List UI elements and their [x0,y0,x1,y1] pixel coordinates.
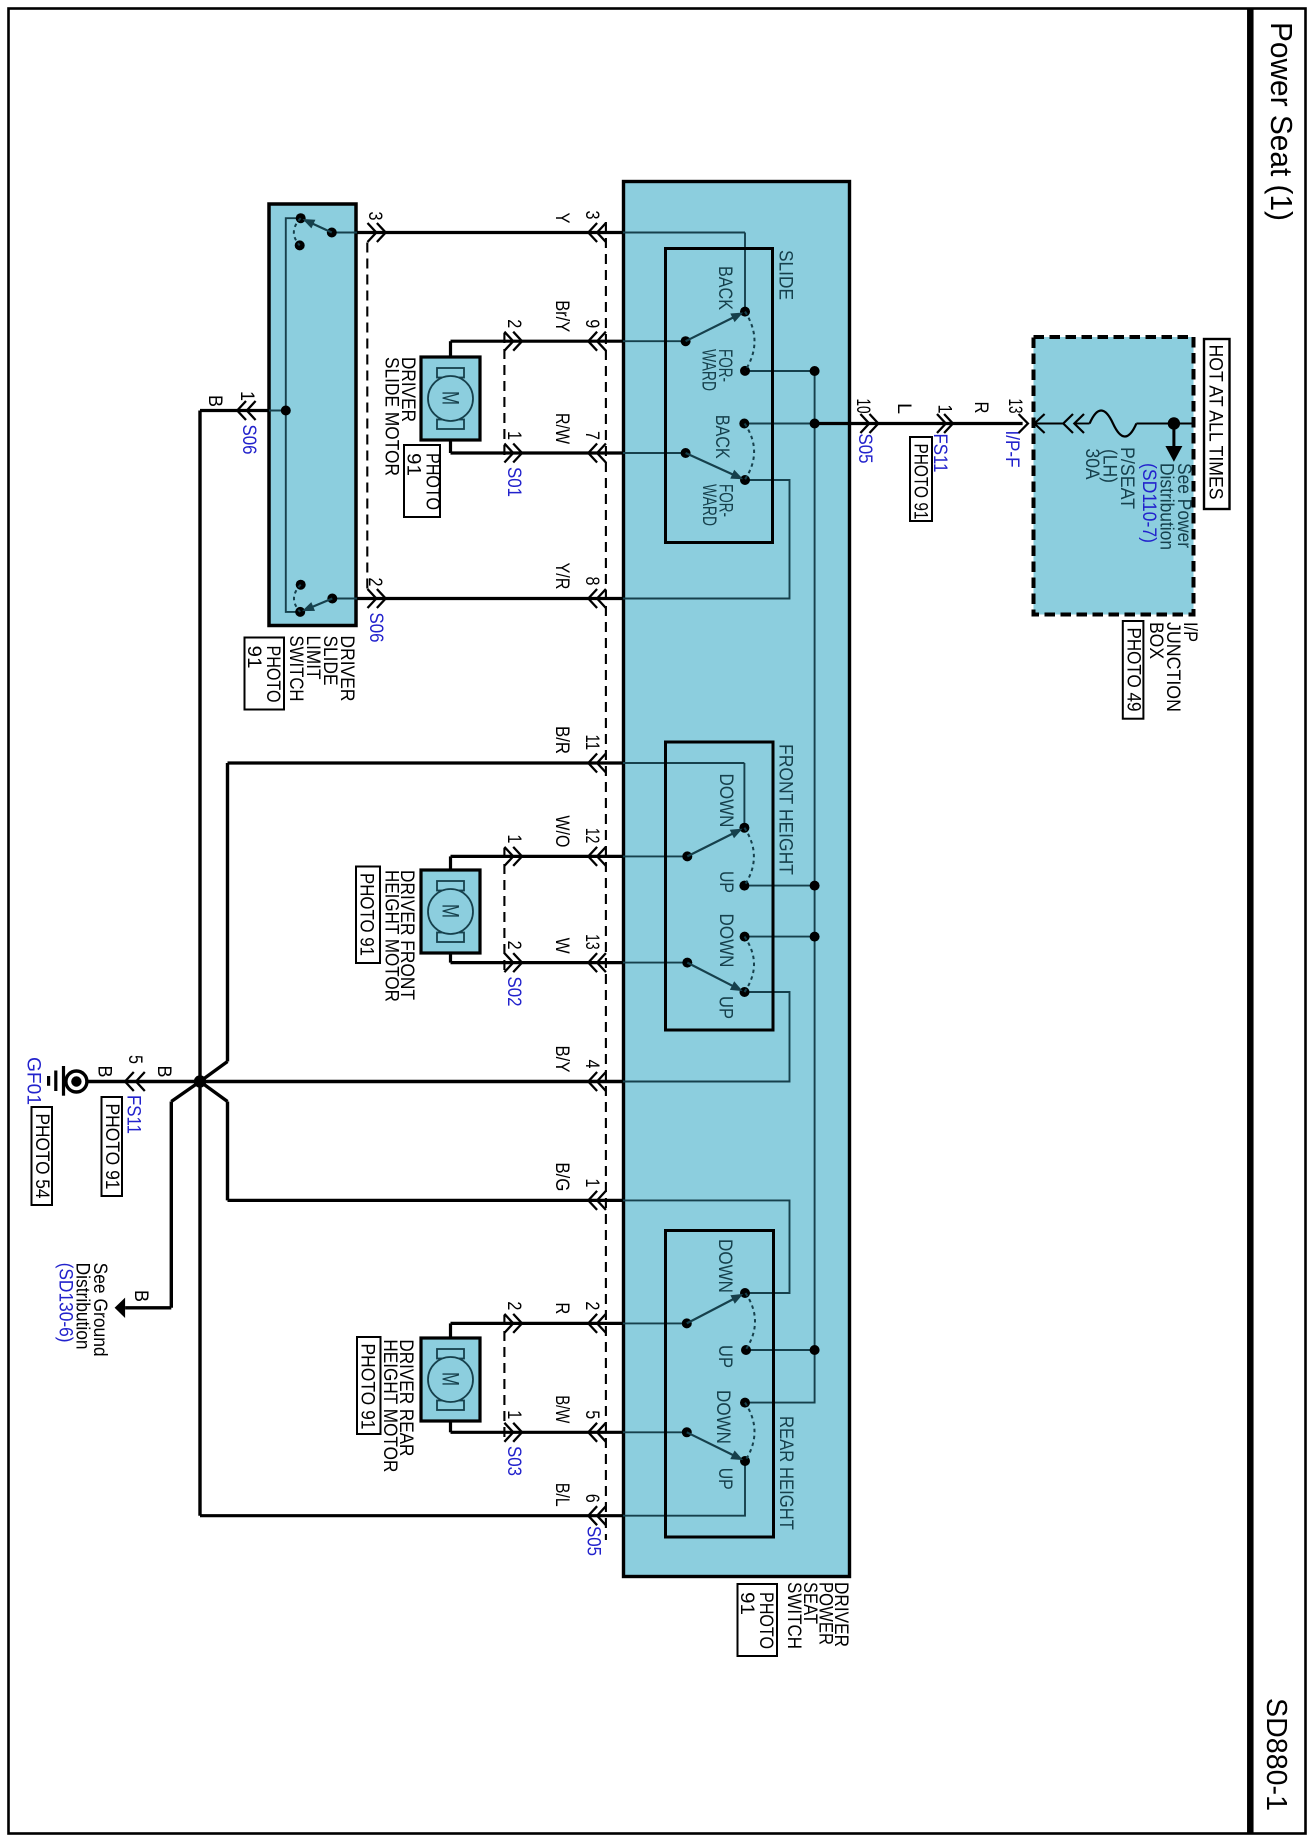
svg-text:1: 1 [934,405,955,414]
svg-text:91: 91 [243,646,264,669]
svg-text:2: 2 [364,578,385,587]
svg-text:2: 2 [503,319,524,328]
svg-text:2: 2 [503,1301,524,1310]
svg-text:S05: S05 [854,434,875,464]
svg-text:BACK: BACK [714,266,735,310]
svg-text:11: 11 [581,735,602,751]
svg-text:HEIGHT MOTOR: HEIGHT MOTOR [379,1339,400,1472]
svg-text:UP: UP [714,1468,735,1490]
svg-text:1: 1 [581,1178,602,1187]
svg-text:R: R [551,1302,572,1314]
svg-text:W: W [551,938,572,954]
svg-text:S03: S03 [503,1446,524,1476]
svg-text:13: 13 [1004,399,1025,414]
svg-text:UP: UP [714,1345,735,1368]
svg-text:S06: S06 [365,613,386,643]
svg-text:91: 91 [736,1592,757,1615]
svg-text:6: 6 [581,1494,602,1503]
svg-text:5: 5 [124,1055,145,1064]
svg-text:L: L [893,403,914,414]
svg-text:PHOTO: PHOTO [422,453,443,510]
svg-text:12: 12 [581,828,602,844]
svg-text:PHOTO: PHOTO [755,1592,776,1649]
svg-text:10: 10 [852,399,873,414]
svg-text:4: 4 [581,1060,602,1069]
svg-text:S02: S02 [503,977,524,1007]
svg-text:Br/Y: Br/Y [551,300,572,332]
svg-text:PHOTO 91: PHOTO 91 [910,444,931,520]
svg-text:Y: Y [551,213,572,224]
svg-text:1: 1 [503,1410,524,1419]
svg-text:WARD: WARD [698,484,719,526]
svg-text:PHOTO: PHOTO [262,646,283,703]
svg-text:SWITCH: SWITCH [783,1582,804,1649]
svg-text:FS11: FS11 [123,1095,144,1134]
svg-text:(SD110-7): (SD110-7) [1138,463,1159,543]
svg-text:B: B [204,395,225,407]
svg-text:B/L: B/L [551,1483,572,1507]
svg-text:B/R: B/R [551,726,572,754]
svg-text:3: 3 [364,212,385,221]
svg-text:91: 91 [403,453,424,476]
svg-text:S01: S01 [503,467,524,497]
svg-text:R/W: R/W [551,413,572,444]
svg-text:DOWN: DOWN [714,1239,735,1293]
svg-text:REAR HEIGHT: REAR HEIGHT [775,1416,796,1530]
svg-text:SWITCH: SWITCH [285,636,306,702]
svg-text:PHOTO 91: PHOTO 91 [101,1104,122,1190]
svg-text:UP: UP [715,871,736,893]
svg-text:1: 1 [503,431,524,440]
svg-text:1: 1 [503,834,524,843]
svg-text:R: R [970,402,991,414]
svg-text:SD880-1: SD880-1 [1260,1698,1292,1811]
svg-text:I/P-F: I/P-F [1001,431,1022,468]
svg-text:W/O: W/O [551,815,572,847]
svg-text:BACK: BACK [711,415,732,459]
svg-text:3: 3 [581,211,602,220]
svg-text:B/W: B/W [551,1395,572,1423]
svg-text:DOWN: DOWN [715,914,736,968]
svg-text:S05: S05 [583,1526,604,1556]
svg-text:B: B [94,1066,115,1078]
svg-text:30A: 30A [1081,449,1102,480]
svg-text:5: 5 [581,1410,602,1419]
svg-text:DOWN: DOWN [712,1390,733,1444]
svg-text:13: 13 [581,934,602,950]
svg-text:7: 7 [581,431,602,440]
svg-text:B: B [153,1066,174,1078]
svg-text:FRONT HEIGHT: FRONT HEIGHT [775,744,796,875]
svg-text:1: 1 [236,391,257,401]
svg-text:SLIDE: SLIDE [775,250,796,300]
svg-text:HOT AT ALL TIMES: HOT AT ALL TIMES [1205,345,1226,500]
svg-text:9: 9 [581,319,602,328]
svg-text:HEIGHT MOTOR: HEIGHT MOTOR [381,870,402,1002]
svg-text:B/G: B/G [551,1162,572,1191]
svg-text:PHOTO 49: PHOTO 49 [1122,628,1143,712]
svg-text:M: M [437,1372,464,1386]
svg-text:(SD130-6): (SD130-6) [54,1263,75,1343]
svg-text:PHOTO 54: PHOTO 54 [31,1114,52,1199]
svg-text:WARD: WARD [698,349,719,391]
svg-text:BOX: BOX [1145,622,1166,659]
svg-text:8: 8 [581,577,602,586]
svg-text:PHOTO 91: PHOTO 91 [356,873,377,956]
svg-text:2: 2 [503,941,524,950]
svg-text:Y/R: Y/R [551,563,572,590]
svg-text:GF01: GF01 [23,1057,44,1105]
svg-text:2: 2 [581,1301,602,1310]
svg-text:B/Y: B/Y [551,1046,572,1073]
svg-text:B: B [130,1290,151,1302]
svg-text:M: M [437,391,464,405]
svg-text:SLIDE MOTOR: SLIDE MOTOR [381,357,402,476]
svg-text:UP: UP [715,996,736,1019]
svg-text:S06: S06 [238,425,259,455]
svg-text:PHOTO 91: PHOTO 91 [357,1344,378,1430]
svg-text:Power Seat (1): Power Seat (1) [1264,22,1299,221]
svg-text:DOWN: DOWN [715,774,736,828]
svg-text:M: M [437,904,464,918]
